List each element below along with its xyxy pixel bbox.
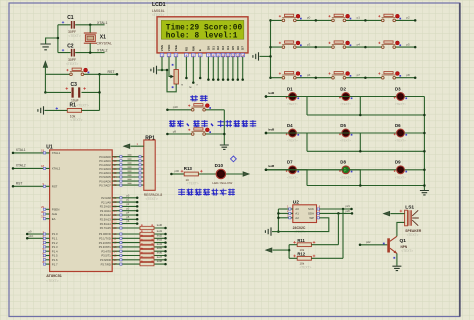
ground mid buttons [220,145,229,149]
pin P1.2 [43,238,58,244]
button p6 [279,72,317,80]
svg-text:P2.5/A13: P2.5/A13 [100,218,112,222]
svg-text:led0: led0 [157,223,163,227]
crystal X1 [84,33,112,45]
svg-text:D3: D3 [395,86,401,91]
svg-text:<TEXT>: <TEXT> [340,102,351,106]
LED D6 [394,123,407,143]
pin P0.0/AD0 wire to RP1 [99,155,147,159]
svg-text:30: 30 [41,210,44,214]
wire right vertical RST-R1 [99,74,101,110]
pin P2.5/A13 wire [100,216,139,222]
button p4 [328,41,366,49]
wire D7 cathode [297,170,308,186]
wire left vertical vcc-c3 [44,74,46,92]
LED D8 [339,160,352,180]
svg-text:X1: X1 [100,35,106,41]
wire net led7 [265,164,342,171]
RP1 pin1 VCC arrow [124,142,144,148]
svg-text:p9: p9 [173,129,177,133]
svg-text:P3.3/INT1: P3.3/INT1 [99,245,112,249]
svg-text:led8: led8 [269,164,275,168]
svg-text:P3.7/RD: P3.7/RD [101,262,111,266]
wire XTAL2 [12,164,61,171]
svg-text:<TEXT>: <TEXT> [407,233,419,237]
blue diamond marker [231,156,237,162]
svg-text:p20: p20 [346,209,351,213]
pin P1.3 [43,243,58,249]
svg-text:P3.0/RXD: P3.0/RXD [99,232,111,236]
wire crystal top [89,25,91,33]
pin P3.0/RXD + resistor to led1 [99,229,167,236]
resistor R1 [45,103,100,122]
svg-text:23: 23 [114,205,117,209]
pin P2.4/A12 wire [100,212,139,218]
svg-text:13: 13 [114,245,117,249]
svg-text:P0.1/AD1: P0.1/AD1 [99,159,111,163]
wire button row p0-p2 [271,19,416,21]
ground crystal [40,44,50,50]
button p2 [378,14,416,22]
svg-text:RW: RW [191,46,195,51]
LED D3 [394,86,407,106]
svg-text:RS: RS [184,47,188,51]
pin P2.6/A14 wire [100,220,139,226]
pin P3.5/T1 + resistor to led6 [101,251,166,258]
svg-text:33: 33 [114,179,117,183]
pin P3.1/TXD + resistor to led2 [99,233,167,240]
capacitor C3 [45,82,99,102]
svg-text:Q1: Q1 [400,238,407,244]
wire ground stub [46,38,58,44]
svg-text:D2: D2 [340,86,346,91]
wire collector to speaker [397,222,405,236]
button p3 [279,41,317,49]
pin P2.3/A11 wire [100,207,139,213]
svg-text:ALE: ALE [52,212,57,216]
pin EA [41,215,56,221]
pin WP loop wire [278,214,328,232]
svg-text:D6: D6 [236,46,240,50]
pin P3.7/RD + resistor to led8 [101,259,167,266]
pin P2.1/A9 wire [101,199,138,205]
svg-text:p1: p1 [357,16,361,20]
wire LED return row 1 [307,114,424,116]
svg-text:XTAL1: XTAL1 [52,151,61,155]
power arrow pullups [266,248,272,252]
pin A0 [278,205,299,212]
button p0 [279,14,317,22]
svg-text:p22: p22 [366,240,371,244]
svg-text:34: 34 [114,175,117,179]
wire LED ground bus [423,97,425,191]
power arrow speaker [384,212,390,216]
svg-text:D5: D5 [231,46,235,50]
svg-text:P0.5/AD5: P0.5/AD5 [99,175,111,179]
svg-text:LCD1: LCD1 [152,2,166,8]
svg-text:21: 21 [114,196,117,200]
svg-text:31: 31 [41,215,44,219]
svg-text:R1: R1 [70,103,77,109]
svg-text:<TEXT>: <TEXT> [66,62,78,66]
wire speaker to VCC arrow [390,213,404,215]
MCU U1 body [50,150,113,272]
svg-text:13: 13 [236,53,240,57]
svg-text:C3: C3 [71,82,78,88]
svg-text:D0: D0 [206,46,210,50]
LED D2 [339,86,352,106]
svg-text:<TEXT>: <TEXT> [70,118,82,122]
LED D4 [286,123,299,143]
svg-text:D7: D7 [241,46,245,50]
ground U2 [265,227,271,235]
svg-text:LED-YELLOW: LED-YELLOW [212,181,232,185]
svg-text:WP: WP [309,216,314,220]
svg-text:led2: led2 [269,91,275,95]
capacitor C1 [58,15,90,38]
svg-text:CRYSTAL: CRYSTAL [97,41,112,45]
svg-text:P0.0/AD0: P0.0/AD0 [99,155,111,159]
ground R1 [38,106,44,114]
svg-text:<TEXT>: <TEXT> [287,175,298,179]
svg-text:SDA: SDA [308,212,314,216]
wire reset top row [45,73,117,75]
wire LCD RW [192,57,194,83]
svg-text:12: 12 [231,53,235,57]
svg-text:p6: p6 [307,73,311,77]
svg-text:A0: A0 [295,207,299,211]
svg-text:29: 29 [41,205,44,209]
svg-text:36: 36 [114,167,117,171]
svg-text:P3.2/INT0: P3.2/INT0 [99,241,112,245]
wire D6 cathode to bus [405,132,425,134]
svg-text:R13: R13 [184,166,193,171]
power arrow D10 [243,172,249,176]
svg-text:17: 17 [114,262,117,266]
wire D5 cathode [350,133,361,151]
svg-text:P2.0/A8: P2.0/A8 [101,196,111,200]
wire LCD E [199,57,201,78]
wire D9 cathode to bus [405,169,425,171]
LCD pin number boxes [160,53,244,57]
svg-text:P0.4/AD4: P0.4/AD4 [99,171,111,175]
svg-text:RESPACK-8: RESPACK-8 [144,193,163,197]
pin P3.3/INT1 + resistor to led4 [99,242,167,249]
button p10 [173,104,211,112]
resistor R13 [181,166,203,186]
ground button matrix [253,52,259,60]
svg-text:25: 25 [114,213,117,217]
svg-text:P0.7/AD7: P0.7/AD7 [99,183,111,187]
wire LED return row 3 [307,185,424,187]
svg-text:D4: D4 [226,46,230,50]
svg-text:D1: D1 [287,86,293,91]
capacitor C2 [58,43,90,61]
wire net led2 [265,91,397,98]
svg-text:P2.1/A9: P2.1/A9 [101,200,111,204]
ground LED bus [420,191,429,195]
power VCC arrow reset [43,62,47,68]
svg-text:RST: RST [52,185,58,189]
svg-text:D4: D4 [287,123,293,128]
svg-text:led8: led8 [157,259,163,263]
wire pot loop to ground [158,70,177,92]
LED D10 [212,163,232,185]
pin P1.6 [43,256,58,262]
wire p10 row [167,109,224,111]
svg-text:22: 22 [114,200,117,204]
wire net led1 [265,91,342,98]
svg-text:37: 37 [114,163,117,167]
svg-text:35: 35 [114,171,117,175]
pin PSEN [41,205,59,211]
svg-text:LS1: LS1 [405,205,414,211]
ground LCD [151,66,157,74]
pin P1.0 [26,230,58,237]
svg-text:PSEN: PSEN [52,208,60,212]
wire U2 left vertical [277,209,279,232]
svg-text:<TEXT>: <TEXT> [146,197,158,201]
junction crystal gnd tee [57,37,60,40]
svg-text:P2.4/A12: P2.4/A12 [100,213,112,217]
wire labels P0 smudges [128,154,132,155]
pin P0.5/AD5 wire to RP1 [99,175,147,179]
pin P0.2/AD2 wire to RP1 [99,163,147,167]
svg-text:<TEXT>: <TEXT> [395,175,406,179]
resistor pack RP1 [144,135,163,201]
wire SDA pullup vertical [337,213,339,244]
svg-text:<TEXT>: <TEXT> [395,139,406,143]
text qiehuan [190,95,198,101]
wire LED return row 2 [307,150,424,152]
LCD LCD1 body [157,17,248,53]
wires LCD D0-D7 [207,57,209,80]
svg-text:RST: RST [16,182,23,186]
svg-text:AT89C51: AT89C51 [46,274,62,278]
svg-text:<TEXT>: <TEXT> [46,279,58,283]
wire to VCC arrow [273,249,290,251]
wire D10 to power arrow [226,173,243,175]
wire button row p6-p8 [271,77,416,79]
svg-text:<TEXT>: <TEXT> [77,104,89,108]
wire D1 cathode [297,97,308,116]
wire D4 cathode [297,133,308,151]
text confirm return next [169,120,176,127]
wire net led5 [265,127,397,134]
LED D7 [286,160,299,180]
svg-text:32: 32 [114,183,117,187]
svg-text:<TEXT>: <TEXT> [340,139,351,143]
svg-text:P1.7: P1.7 [52,262,58,266]
pin A2 [278,214,299,221]
svg-text:XTAL1: XTAL1 [97,21,107,25]
svg-text:p2: p2 [406,16,410,20]
node XTAL2 wire [90,52,104,54]
wire RST [12,182,58,189]
svg-text:19: 19 [41,149,44,153]
svg-text:D8: D8 [340,160,346,165]
text hit mole indicator [178,189,185,196]
svg-text:D6: D6 [395,123,401,128]
svg-text:P2.3/A11: P2.3/A11 [100,209,111,213]
svg-text:<TEXT>: <TEXT> [187,182,199,186]
wire button row p3-p5 [271,46,416,48]
svg-text:<TEXT>: <TEXT> [300,266,312,270]
wire D8 cathode [350,170,361,186]
svg-text:p21: p21 [346,204,351,208]
pin P2.0/A8 wire [101,194,138,200]
svg-text:C1: C1 [67,15,74,21]
wire R13 to D10 [198,173,216,175]
pin P0.4/AD4 wire to RP1 [99,171,147,175]
wire left vertical C1-C2 [57,25,59,53]
svg-text:10: 10 [222,53,226,57]
svg-text:<TEXT>: <TEXT> [401,249,413,253]
pin ALE [41,210,57,216]
svg-text:D5: D5 [340,123,346,128]
wire crystal bottom [89,43,91,52]
svg-text:VDD: VDD [167,44,171,51]
svg-text:A1: A1 [295,212,299,216]
svg-text:39: 39 [114,155,117,159]
svg-text:27: 27 [114,222,117,226]
svg-text:<TEXT>: <TEXT> [395,102,406,106]
svg-text:28: 28 [114,226,117,230]
svg-text:led5: led5 [269,127,275,131]
pin P1.4 [43,247,58,253]
pin P3.6/WR + resistor to led7 [100,255,167,262]
svg-text:p10: p10 [173,105,178,109]
transistor Q1 [389,236,414,253]
wire net led3 [265,127,289,134]
svg-text:<TEXT>: <TEXT> [294,230,306,234]
pin P0.6/AD6 wire to RP1 [99,179,147,183]
svg-text:VSS: VSS [160,45,164,51]
button p8 [378,72,416,80]
svg-text:p0: p0 [307,16,311,20]
wire SCL pullup vertical [342,209,344,258]
svg-text:Time:29 Score:00: Time:29 Score:00 [166,25,243,33]
wire U2 ground stub [272,231,278,233]
svg-text:D2: D2 [216,46,220,50]
svg-text:<TEXT>: <TEXT> [287,139,298,143]
svg-text:D10: D10 [215,163,224,168]
ground Q1 [392,266,401,270]
wire mid buttons to ground [223,110,225,145]
svg-text:p7: p7 [357,73,361,77]
button p9 [173,128,211,136]
wire emitter to ground [396,253,398,265]
svg-text:SCK: SCK [308,207,314,211]
pin P2.7/A15 + resistor to led0 [100,223,167,230]
LCD screen [161,20,244,39]
svg-text:p8: p8 [406,73,410,77]
svg-text:R12: R12 [297,252,305,257]
wire D2 cathode [350,97,361,116]
svg-text:D9: D9 [395,160,401,165]
svg-text:P3.4/T0: P3.4/T0 [101,249,111,253]
svg-text:16: 16 [114,258,117,262]
pin P0.3/AD3 wire to RP1 [99,167,147,171]
svg-text:P2.2/A10: P2.2/A10 [100,205,112,209]
svg-text:P0.3/AD3: P0.3/AD3 [99,167,111,171]
svg-text:38: 38 [114,159,117,163]
LED D1 [286,86,299,106]
pin SCK wire [308,204,353,211]
svg-text:EA: EA [52,217,56,221]
svg-text:<TEXT>: <TEXT> [287,102,298,106]
svg-text:11: 11 [227,53,230,57]
button p5 [378,41,416,49]
svg-text:RST: RST [108,70,116,74]
button reset [66,68,89,76]
svg-text:P3.6/WR: P3.6/WR [100,258,111,262]
wire XTAL1 [12,148,61,155]
wire button bus vertical [270,20,272,77]
svg-text:D7: D7 [287,160,293,165]
svg-text:24: 24 [114,209,117,213]
pin P3.4/T0 + resistor to led5 [101,246,166,253]
button p7 [328,72,366,80]
svg-text:18: 18 [41,164,44,168]
wire LCD VSS to ground [158,57,163,70]
wire LCD VDD to pot wiper [169,57,171,77]
LCD pin names rotated [160,44,245,51]
resistor R12 [289,252,343,270]
wire D3 cathode to bus [405,96,425,98]
svg-text:p3: p3 [307,42,311,46]
wire LCD VEE to pot [175,57,177,70]
svg-text:P0.6/AD6: P0.6/AD6 [99,179,111,183]
pin P3.2/INT0 + resistor to led3 [99,238,167,245]
pin P1.7 [43,260,58,266]
wire p22 to base [360,244,387,246]
svg-text:15: 15 [114,254,117,258]
speaker LS1 [400,205,422,238]
svg-text:12: 12 [114,241,117,245]
resistor R11 [289,238,338,252]
svg-text:P3.1/TXD: P3.1/TXD [99,237,111,241]
node XTAL1 wire [90,24,104,26]
node RST [98,73,101,76]
svg-text:26: 26 [114,217,117,221]
pin SDA wire [308,209,353,216]
button p1 [328,14,366,22]
svg-text:A2: A2 [295,216,299,220]
pin P1.1 [26,234,58,241]
wire net led8 [265,164,397,171]
EEPROM U2 body [293,205,317,223]
svg-text:p00: p00 [175,169,180,173]
svg-text:XTAL1: XTAL1 [16,148,26,152]
svg-text:P3.5/T1: P3.5/T1 [101,254,111,258]
LED D9 [394,160,407,180]
svg-text:C2: C2 [67,43,74,49]
svg-text:14: 14 [241,53,245,57]
svg-text:14: 14 [114,249,117,253]
pin P1.5 [43,251,58,257]
LED D5 [339,123,352,143]
wire net led4 [265,127,342,134]
svg-text:E: E [198,49,202,51]
svg-text:R11: R11 [297,238,305,243]
svg-text:p4: p4 [357,42,361,46]
pin A1 [278,209,299,216]
pin P2.2/A10 wire [100,203,139,209]
wire pullup common vertical [288,245,290,259]
svg-text:<TEXT>: <TEXT> [68,34,80,38]
svg-text:XTAL2: XTAL2 [16,164,26,168]
